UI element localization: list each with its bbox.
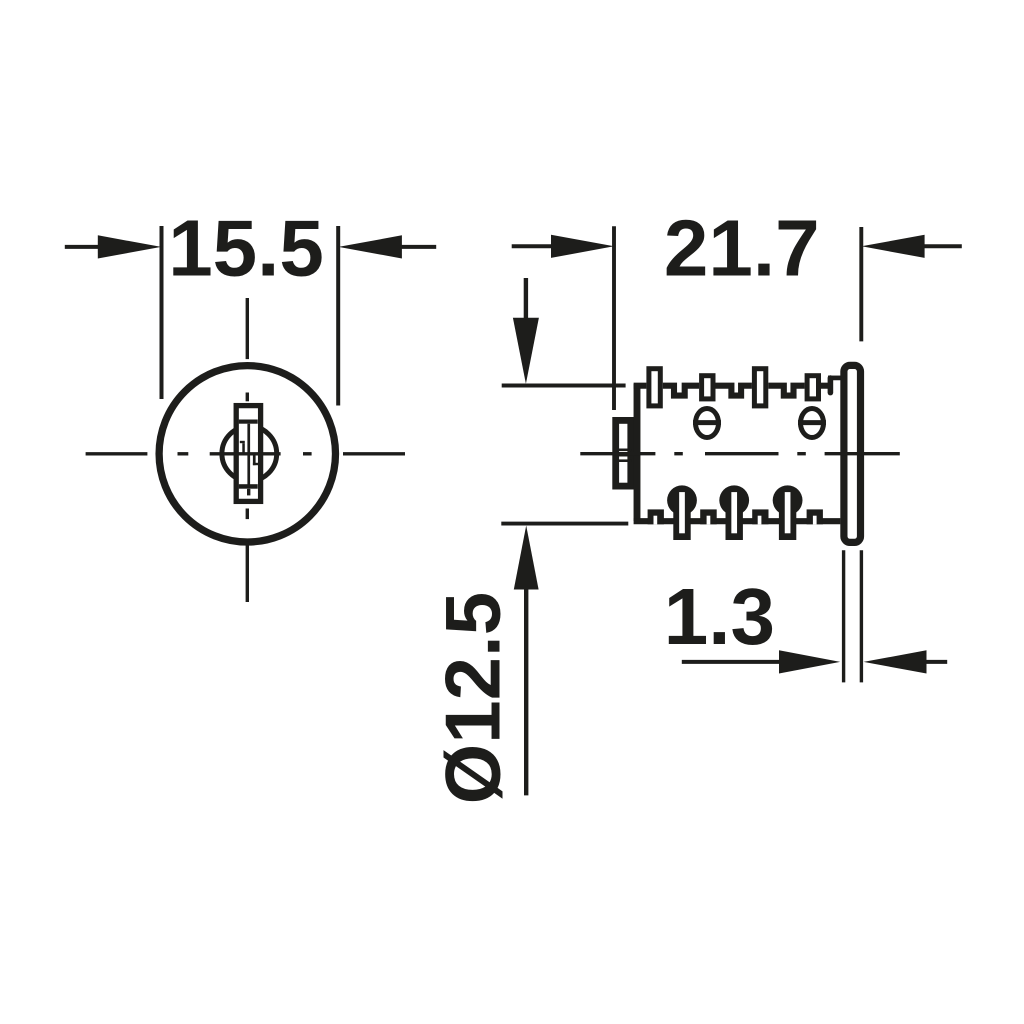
dimension 21.7 left extension line	[612, 226, 616, 410]
pin tumbler white slots	[679, 492, 790, 533]
staple bump white notches	[654, 516, 817, 525]
dimension text 15.5	[168, 203, 324, 292]
dimension text 21.7	[664, 203, 820, 292]
dimension 1.3 left extension line below flange	[842, 550, 845, 682]
flange (rosette ring)	[844, 365, 861, 542]
keyway right ward step	[253, 455, 259, 465]
svg-text:21.7: 21.7	[664, 203, 820, 292]
diameter 12.5 top extension line	[502, 384, 626, 388]
keyway outer plate rectangle	[236, 406, 260, 502]
dimension 21.7 left dimension line and arrowhead	[512, 235, 614, 258]
dimension 15.5 left extension line	[160, 226, 164, 399]
dimension 15.5 left dimension line and arrowhead	[65, 235, 161, 258]
side view horizontal centerline (chain line)	[580, 452, 900, 455]
front view: cylinder face outer circle	[159, 366, 335, 542]
side view body bottom edge	[634, 518, 841, 524]
front view vertical centerline (chain line)	[247, 298, 248, 602]
spring chamber post 1 (tall)	[649, 369, 660, 406]
pin tumbler 1	[667, 485, 697, 540]
bottom staple bump 2	[700, 509, 717, 524]
dimension 1.3 left dimension line and arrowhead	[682, 650, 840, 673]
screw 2 (slotted)	[798, 409, 826, 438]
dimension 15.5 right extension line	[336, 226, 340, 406]
keyway upper cross bar	[239, 420, 258, 424]
dimension text 1.3	[664, 572, 775, 661]
bottom staple bump 4	[807, 509, 823, 524]
top edge hook tab and flange connector	[828, 378, 842, 393]
side view: cylinder core plug (left protrusion)	[616, 420, 631, 486]
keyway lower cross bar	[239, 484, 258, 489]
screw 1 (slotted)	[693, 409, 721, 438]
front view horizontal centerline (chain line)	[86, 452, 405, 455]
dimension 1.3 right dimension line and arrowhead	[864, 650, 948, 673]
spring chamber post 3 (tall)	[754, 369, 765, 406]
core plug groove lines	[616, 450, 632, 461]
bottom staple bump 3	[752, 509, 768, 524]
svg-text:Ø12.5: Ø12.5	[429, 592, 517, 804]
pin tumbler 3	[773, 485, 803, 540]
svg-text:15.5: 15.5	[168, 203, 324, 292]
dimension diameter 12.5 bottom arrow line	[514, 526, 539, 796]
front view: cylinder core circle	[222, 426, 277, 481]
spring chamber post 4 (short)	[807, 376, 818, 399]
dimension 15.5 right dimension line and arrowhead	[339, 235, 437, 258]
side view body left wall	[634, 384, 641, 521]
dimension 1.3 right extension line below flange	[860, 550, 863, 682]
diameter 12.5 bottom extension line	[501, 522, 628, 526]
dimension text diameter 12.5 (rotated)	[429, 592, 517, 804]
keyway left ward step	[240, 441, 245, 453]
bottom staple bump 1	[648, 509, 664, 524]
dimension diameter 12.5 top arrow line	[513, 278, 539, 384]
dimension 21.7 right dimension line and arrowhead	[862, 235, 962, 258]
spring chamber post 2 (short)	[702, 376, 713, 399]
dimension 21.7 right extension line	[859, 227, 863, 341]
side view body top castellated edge	[634, 386, 831, 396]
keyway central vertical slot line	[247, 424, 250, 489]
pin tumbler 2	[719, 485, 749, 540]
svg-text:1.3: 1.3	[664, 572, 775, 661]
